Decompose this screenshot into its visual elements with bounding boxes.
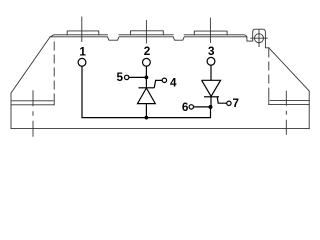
svg-text:6: 6 bbox=[182, 101, 189, 114]
svg-text:4: 4 bbox=[170, 76, 177, 89]
svg-text:3: 3 bbox=[208, 45, 215, 58]
svg-text:5: 5 bbox=[117, 71, 124, 84]
svg-text:1: 1 bbox=[79, 46, 86, 59]
svg-text:7: 7 bbox=[233, 97, 240, 110]
svg-text:2: 2 bbox=[144, 45, 151, 58]
